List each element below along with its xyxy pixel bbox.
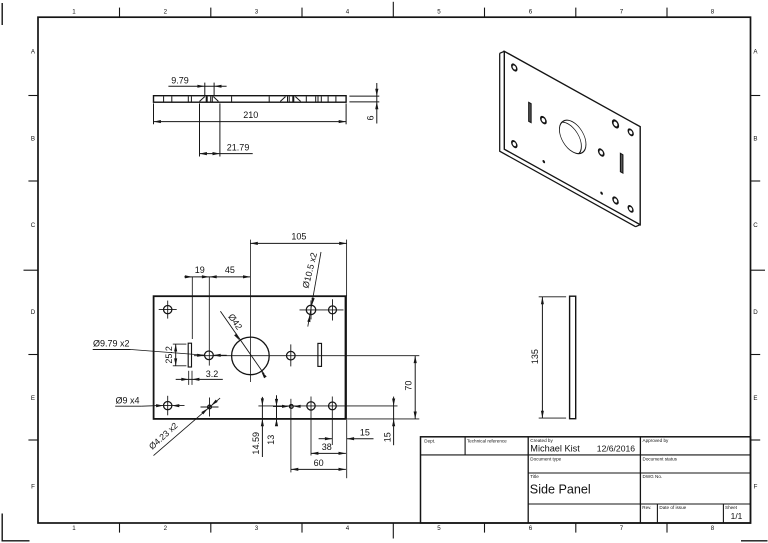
corner hole top-left crosshair [167, 301, 169, 319]
title block horizontal row line 1 [421, 454, 751, 456]
svg-text:B: B [31, 135, 35, 142]
svg-text:105: 105 [291, 232, 306, 242]
leader D10.5 x2 diagonal through hole [308, 252, 321, 327]
row ticks right edge [751, 95, 761, 97]
corner hole bottom-left crosshair vertical [167, 396, 169, 416]
svg-text:3: 3 [255, 9, 259, 16]
dimension 135 extension lines [539, 296, 566, 298]
sheet corner trim mark bottom-left [2, 514, 29, 541]
front view right edge emphasis [344, 296, 346, 419]
svg-text:135: 135 [530, 349, 540, 364]
title block vertical divider main left [527, 437, 529, 523]
leader and label D9.79 x2 [93, 349, 131, 351]
column ticks bottom edge [119, 523, 121, 533]
slot right 3.2x25.2 [318, 343, 322, 366]
bottom right hole D10.5 [307, 402, 315, 410]
dimension 6 extension lines [349, 95, 379, 97]
title block date/sheet divider [722, 504, 724, 523]
svg-text:Ø9.79 x2: Ø9.79 x2 [93, 339, 130, 349]
svg-text:8: 8 [711, 525, 715, 532]
centerline extension right for 70 dim [346, 355, 419, 357]
title block outline [421, 437, 751, 523]
svg-text:Rev.: Rev. [642, 505, 651, 510]
dimension 19 and 45 arrows [185, 275, 192, 278]
sheet corner trim mark top-left [1, 3, 3, 25]
center horizontal centerline through middle hole row [194, 355, 346, 357]
svg-text:19: 19 [195, 265, 205, 275]
title block vertical divider created/approved [639, 437, 641, 523]
dimension leader D42 diagonal line [220, 311, 264, 374]
svg-text:1/1: 1/1 [731, 511, 743, 521]
svg-text:5: 5 [437, 9, 441, 16]
isometric bottom right hole D9 [628, 204, 634, 213]
bottom pair vertical crosshairs and extensions [310, 397, 312, 456]
svg-text:Dept.: Dept. [424, 438, 435, 443]
svg-text:C: C [753, 222, 758, 229]
dimension 38 line and arrows [311, 452, 346, 454]
dimension 25.2 line and arrows [175, 344, 177, 366]
dimension 15 horizontal line and arrows [319, 438, 333, 440]
svg-text:B: B [753, 135, 757, 142]
hole D9.79 right [287, 351, 296, 360]
section view hidden feature lines [163, 96, 165, 101]
svg-text:210: 210 [243, 110, 258, 120]
title block horizontal row line 3 [528, 503, 750, 505]
tiny hole D4.23 number 2 [289, 405, 293, 409]
svg-text:38: 38 [322, 442, 332, 452]
dimension 13 line and arrows [276, 395, 278, 425]
svg-text:1: 1 [72, 525, 76, 532]
svg-text:3.2: 3.2 [206, 369, 219, 379]
dimension 15 horizontal extension lines [346, 420, 348, 478]
svg-text:60: 60 [314, 458, 324, 468]
leader and label D9 x4 [115, 405, 141, 407]
svg-text:C: C [31, 222, 36, 229]
svg-text:4: 4 [346, 9, 350, 16]
extension line from slot for 19 [191, 277, 193, 339]
svg-text:9.79: 9.79 [171, 75, 189, 85]
section countersink cone left hole [200, 97, 205, 102]
svg-text:Sheet: Sheet [725, 505, 738, 510]
svg-text:DWG No.: DWG No. [643, 474, 663, 479]
svg-text:6: 6 [529, 9, 533, 16]
isometric top right hole D10.5 [612, 118, 619, 129]
dimension 25.2 extension lines [173, 343, 187, 345]
svg-text:Document type: Document type [530, 456, 561, 461]
dimension 19 and 45 shared line [184, 276, 250, 278]
isometric plate front face [504, 51, 640, 224]
isometric slot right [620, 153, 623, 173]
svg-text:Ø9 x4: Ø9 x4 [116, 395, 140, 405]
vertical centerline through big hole / 105 extension [249, 240, 251, 382]
isometric hole D9.79 left [540, 115, 546, 125]
leader D4.23 diagonal line [154, 398, 221, 456]
hole D9.79 right vertical crosshair [290, 344, 292, 366]
svg-text:70: 70 [403, 381, 413, 391]
dimension 3.2 line and arrows [176, 378, 223, 380]
svg-text:Technical reference: Technical reference [467, 438, 507, 443]
tiny hole D4.23 number 1 [208, 405, 212, 409]
svg-text:6: 6 [365, 115, 375, 120]
dimension D42 arrows at circle [234, 334, 240, 341]
svg-text:13: 13 [266, 435, 276, 445]
isometric big hole D42 with depth [555, 115, 586, 162]
isometric bottom right hole D10.5 [613, 196, 619, 206]
isometric tiny hole 2 [601, 192, 603, 195]
svg-text:Date of issue: Date of issue [659, 505, 686, 510]
svg-text:25.2: 25.2 [164, 346, 174, 364]
svg-text:Approved by: Approved by [643, 438, 669, 443]
title block rev/date divider [656, 504, 658, 523]
hole D9.79 left vertical centerline / 45 extension [208, 277, 210, 366]
dimension 9.79 line and arrows [168, 85, 226, 87]
svg-text:12/6/2016: 12/6/2016 [597, 444, 635, 454]
isometric corner hole top-left [511, 63, 517, 73]
isometric plate thickness connector top-left [500, 51, 505, 53]
isometric top right hole D9 [628, 128, 634, 138]
top right hole D9 pair [329, 306, 337, 314]
top hole pair vertical crosshairs [310, 300, 312, 319]
svg-text:45: 45 [225, 265, 235, 275]
isometric tiny hole 1 [543, 160, 545, 163]
title block vertical divider dept/tech-ref [464, 437, 466, 455]
bottom right hole D9 pair [329, 402, 337, 410]
column ticks top edge [119, 8, 121, 18]
side view outline strip 135 tall [570, 296, 576, 419]
dimension 15 vertical right line and arrows [393, 397, 395, 446]
svg-text:F: F [754, 483, 758, 490]
front view plate outline 210x135 [154, 296, 346, 419]
top section view outline of 210mm plate edge [154, 96, 347, 103]
dimension 9.79 extension lines [204, 83, 206, 95]
svg-text:Document status: Document status [643, 456, 678, 461]
dimension 210 line and arrows [154, 121, 347, 123]
svg-text:F: F [31, 483, 35, 490]
svg-text:Title: Title [530, 474, 539, 479]
sheet corner trim mark bottom-right [741, 540, 768, 542]
isometric corner hole bottom-left [511, 139, 517, 149]
svg-text:15: 15 [360, 427, 370, 437]
dimension 21.79 line and arrows [200, 153, 253, 155]
dimension 3.2 extension lines [188, 371, 190, 385]
title block horizontal row line 2 [528, 472, 750, 474]
dimension 14.59 line and arrows [261, 397, 263, 457]
svg-text:4: 4 [346, 525, 350, 532]
dimension 105 line and arrows [250, 242, 346, 244]
dimension 60 line and arrows [291, 468, 346, 470]
corner hole top-left D9 [164, 305, 172, 313]
svg-text:E: E [31, 395, 35, 402]
top right hole D10.5 [306, 305, 315, 314]
svg-text:1: 1 [72, 9, 76, 16]
svg-text:2: 2 [164, 525, 168, 532]
dimension 70 line and arrows [414, 356, 416, 419]
svg-text:Created by: Created by [530, 438, 553, 443]
tiny hole 2 vertical line / 60 extension [290, 399, 292, 473]
top hole pair horizontal centerline [300, 309, 344, 311]
svg-text:14.59: 14.59 [251, 432, 261, 455]
svg-text:D: D [753, 309, 758, 316]
isometric hole D9.79 right [598, 147, 604, 157]
svg-text:15: 15 [382, 432, 392, 442]
big hole D42 [232, 337, 270, 375]
svg-text:21.79: 21.79 [227, 142, 250, 152]
svg-text:2: 2 [164, 9, 168, 16]
svg-text:8: 8 [711, 9, 715, 16]
dimension 21.79 extension lines [199, 103, 201, 156]
diameter D9.79 arrows [197, 354, 204, 357]
svg-text:6: 6 [529, 525, 533, 532]
svg-text:E: E [753, 395, 757, 402]
tiny hole 1 crosshair [209, 398, 211, 417]
svg-text:7: 7 [620, 525, 624, 532]
hole D9.79 left [205, 351, 214, 360]
section countersink cone right hole [280, 97, 285, 102]
dimension 70 extension line bottom [347, 418, 420, 420]
tiny hole 2 diameter arrows [282, 405, 289, 408]
diameter D9 dimension line with outside arrows [155, 405, 184, 407]
svg-text:D: D [31, 309, 36, 316]
dimension 210 extension lines [153, 103, 155, 124]
isometric plate back edges (thickness) [500, 53, 636, 226]
svg-text:Side Panel: Side Panel [530, 483, 591, 497]
corner hole bottom-left D9 [164, 401, 172, 409]
dimension 135 line and arrows [541, 297, 543, 418]
row ticks left edge [28, 95, 38, 97]
svg-text:3: 3 [255, 525, 259, 532]
svg-text:Michael Kist: Michael Kist [530, 444, 580, 454]
isometric plate thickness connector bottom-right [636, 225, 641, 227]
svg-text:5: 5 [437, 525, 441, 532]
dimension 6 line and arrows [376, 83, 378, 124]
slot left 3.2x25.2 [188, 343, 191, 367]
svg-text:7: 7 [620, 9, 624, 16]
isometric slot left [529, 102, 531, 122]
dimension 105 right extension line [346, 240, 348, 297]
bottom hole row centerline [258, 405, 397, 407]
